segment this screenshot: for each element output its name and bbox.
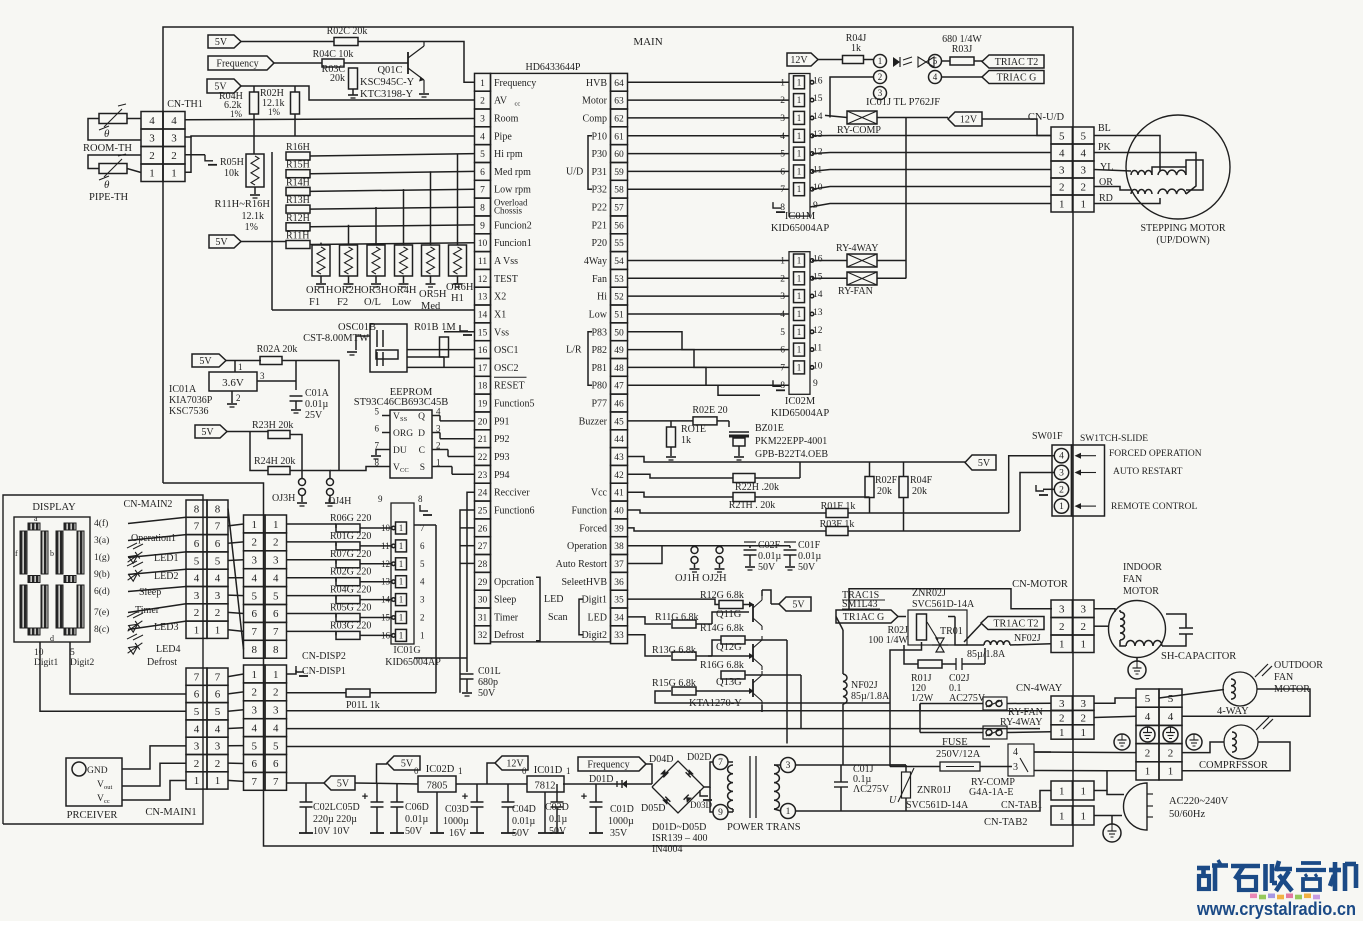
svg-text:OR2H: OR2H xyxy=(334,285,362,296)
svg-text:11: 11 xyxy=(478,257,487,267)
svg-text:2: 2 xyxy=(1080,621,1086,633)
node R03F label xyxy=(820,519,855,530)
svg-text:4: 4 xyxy=(1059,452,1064,462)
svg-text:8: 8 xyxy=(194,503,200,515)
svg-text:3: 3 xyxy=(251,555,257,567)
node R05H label xyxy=(220,157,244,179)
node MCU right pin labels xyxy=(556,78,608,641)
svg-text:KID65004AP: KID65004AP xyxy=(771,223,829,234)
svg-text:2: 2 xyxy=(215,607,221,619)
svg-text:6: 6 xyxy=(273,758,279,770)
svg-text:1: 1 xyxy=(797,273,802,283)
motor compressor xyxy=(1224,717,1273,759)
svg-text:3: 3 xyxy=(149,133,155,145)
node terminal 7 xyxy=(704,755,728,788)
wire RY4WAY common xyxy=(877,260,906,262)
resistor R23H xyxy=(268,431,290,439)
svg-text:5: 5 xyxy=(1168,693,1174,705)
svg-text:a: a xyxy=(34,514,38,523)
wire PK to motor xyxy=(1094,153,1196,195)
svg-text:5V: 5V xyxy=(201,427,214,438)
svg-text:7(e): 7(e) xyxy=(94,607,109,618)
node CN-MAIN2 label xyxy=(124,499,173,510)
wire R02H to Pipe row xyxy=(294,114,296,136)
svg-text:3: 3 xyxy=(1059,469,1064,479)
svg-text:5: 5 xyxy=(251,740,257,752)
node Digit1 label xyxy=(34,648,59,668)
node AC220 label xyxy=(1169,796,1229,820)
svg-text:GPB-B22T4.OEB: GPB-B22T4.OEB xyxy=(755,449,828,460)
svg-text:PK: PK xyxy=(1098,142,1112,153)
svg-text:TR1AC T2: TR1AC T2 xyxy=(993,619,1038,630)
node R04H label xyxy=(219,91,243,119)
svg-text:0.01µ: 0.01µ xyxy=(758,551,782,562)
node FUSE label xyxy=(936,737,981,760)
svg-text:3: 3 xyxy=(251,705,257,717)
svg-text:5V: 5V xyxy=(337,779,350,790)
node IC01G label xyxy=(385,645,441,668)
ground below Q01C emitter xyxy=(419,94,429,97)
wire disp2 rows to resistors xyxy=(287,524,392,635)
wire long row2 xyxy=(1034,751,1136,754)
wire R23H right xyxy=(290,435,302,480)
svg-text:X2: X2 xyxy=(494,292,506,303)
svg-text:R07G 220: R07G 220 xyxy=(330,549,371,560)
svg-text:R02G 220: R02G 220 xyxy=(330,567,371,578)
svg-text:14: 14 xyxy=(813,290,823,300)
svg-text:1: 1 xyxy=(215,775,221,787)
node C01J label xyxy=(853,764,890,795)
node terminal 3 xyxy=(781,758,796,773)
wire ry-fan row xyxy=(920,702,1051,704)
svg-text:16V: 16V xyxy=(449,828,467,839)
node R02H label xyxy=(260,88,285,117)
svg-text:6: 6 xyxy=(194,689,200,701)
node INDOOR FAN MOTOR label xyxy=(1123,562,1162,597)
svg-text:1: 1 xyxy=(273,669,279,681)
svg-text:4: 4 xyxy=(1145,711,1151,723)
wire snubber xyxy=(904,645,985,664)
svg-text:TR1AC G: TR1AC G xyxy=(843,612,884,623)
svg-text:22: 22 xyxy=(478,453,488,463)
svg-text:D: D xyxy=(418,429,425,439)
svg-text:3: 3 xyxy=(1080,164,1086,176)
svg-text:7: 7 xyxy=(480,186,485,196)
svg-text:C02D: C02D xyxy=(545,802,569,813)
svg-text:AV: AV xyxy=(494,96,508,107)
svg-text:2: 2 xyxy=(273,687,279,699)
svg-text:ZNR02J: ZNR02J xyxy=(912,588,946,599)
svg-text:35: 35 xyxy=(614,596,624,606)
varistor ZNR02J xyxy=(908,610,967,645)
node R01F label xyxy=(821,501,856,512)
wire RY-4WAY in xyxy=(812,260,847,262)
svg-text:Operation: Operation xyxy=(567,541,607,552)
regulator IC01D 7812 xyxy=(527,776,564,833)
svg-text:IN4004: IN4004 xyxy=(652,844,683,855)
svg-text:3: 3 xyxy=(1080,698,1086,710)
svg-text:8: 8 xyxy=(418,494,423,504)
svg-text:D04D: D04D xyxy=(649,754,673,765)
node R01E label xyxy=(681,424,706,446)
svg-text:41: 41 xyxy=(614,489,624,499)
svg-text:2: 2 xyxy=(1168,748,1174,760)
svg-text:56: 56 xyxy=(614,221,624,231)
svg-text:1: 1 xyxy=(780,78,785,88)
svg-text:SS: SS xyxy=(400,416,408,423)
resistor R01F xyxy=(826,509,848,518)
resistor OR1H-OR6H pullups xyxy=(312,154,467,288)
svg-text:OJ4H: OJ4H xyxy=(328,496,351,507)
power tag 5V F xyxy=(965,455,996,470)
connector CN-DISP1 xyxy=(244,665,287,790)
node IC01D label xyxy=(522,765,571,776)
capacitor SH-CAPACITOR xyxy=(1162,614,1193,646)
svg-text:Digit1: Digit1 xyxy=(34,658,59,668)
wire ladder left bus xyxy=(272,152,475,310)
svg-text:ROOM-TH: ROOM-TH xyxy=(83,143,132,154)
fuse FUSE xyxy=(934,762,1012,771)
svg-text:14: 14 xyxy=(813,112,823,122)
svg-text:4: 4 xyxy=(171,115,177,127)
svg-text:D02D: D02D xyxy=(687,752,711,763)
svg-text:3: 3 xyxy=(1059,604,1065,616)
motor stepping motor xyxy=(1126,115,1230,219)
svg-text:R13G 6.8k: R13G 6.8k xyxy=(652,645,696,656)
svg-text:Pipe: Pipe xyxy=(494,131,512,142)
wire pin27 stub xyxy=(460,545,475,547)
svg-text:26: 26 xyxy=(478,524,488,534)
node Digit2 label xyxy=(70,648,95,668)
svg-text:0: 0 xyxy=(522,766,527,776)
svg-text:4: 4 xyxy=(251,723,257,735)
svg-text:5V: 5V xyxy=(978,458,991,469)
node R02J label xyxy=(868,625,908,646)
varistor ZNR01J xyxy=(898,765,914,811)
svg-text:4: 4 xyxy=(933,72,938,82)
svg-text:CN-TAB1: CN-TAB1 xyxy=(1001,800,1042,811)
svg-text:6: 6 xyxy=(215,538,221,550)
svg-text:OR5H: OR5H xyxy=(419,289,447,300)
svg-text:S: S xyxy=(420,463,425,473)
connector CN-TAB1 xyxy=(1051,781,1094,800)
svg-text:1: 1 xyxy=(399,541,404,551)
node CN-U/D label xyxy=(1028,112,1065,123)
svg-text:47: 47 xyxy=(614,382,624,392)
node ROOM-TH label xyxy=(83,143,132,154)
wire disp1 row5 bus xyxy=(287,746,991,748)
svg-text:OR1H: OR1H xyxy=(306,285,334,296)
svg-text:32: 32 xyxy=(478,631,488,641)
connector CN-4WAY xyxy=(1051,696,1094,739)
svg-text:5: 5 xyxy=(375,407,380,417)
svg-text:d: d xyxy=(50,634,54,643)
wire MCU to IC01M in1-7 xyxy=(628,82,790,189)
wire R02F xyxy=(869,462,871,513)
svg-text:R02F: R02F xyxy=(875,475,898,486)
svg-text:IC01A: IC01A xyxy=(169,384,197,395)
svg-text:7: 7 xyxy=(718,758,723,768)
svg-text:2: 2 xyxy=(420,613,425,623)
svg-text:85µ/1.8A: 85µ/1.8A xyxy=(967,649,1006,660)
svg-text:1: 1 xyxy=(399,577,404,587)
svg-text:37: 37 xyxy=(614,560,624,570)
svg-text:RD: RD xyxy=(1099,193,1113,204)
wire display rows to CN-MAIN2 xyxy=(128,517,186,629)
svg-text:RO1E: RO1E xyxy=(681,424,706,435)
svg-text:50V: 50V xyxy=(512,828,530,839)
svg-text:40: 40 xyxy=(614,507,624,517)
svg-text:P20: P20 xyxy=(591,238,607,249)
wire pin35 digit1 xyxy=(628,599,720,604)
svg-text:6: 6 xyxy=(375,424,380,434)
svg-text:Function6: Function6 xyxy=(494,506,535,517)
svg-text:4: 4 xyxy=(1080,147,1086,159)
wire pin42 R22H xyxy=(628,462,801,478)
svg-text:R05G 220: R05G 220 xyxy=(330,603,371,614)
wire outdoor motor loop xyxy=(1159,689,1310,716)
node IC01M label xyxy=(771,211,829,234)
wire ry rows left xyxy=(919,704,921,733)
node IC01J label xyxy=(866,97,940,108)
svg-text:3: 3 xyxy=(260,371,265,381)
svg-text:44: 44 xyxy=(614,435,624,445)
svg-text:1: 1 xyxy=(797,362,802,372)
wire EEPROM Q to P91 xyxy=(440,416,475,421)
svg-text:6(d): 6(d) xyxy=(94,586,110,597)
svg-text:20: 20 xyxy=(478,417,488,427)
wire compressor loop xyxy=(1182,742,1290,771)
svg-text:V: V xyxy=(97,794,104,804)
svg-text:IC01D: IC01D xyxy=(534,765,563,776)
svg-text:1: 1 xyxy=(399,523,404,533)
svg-text:1: 1 xyxy=(797,149,802,159)
svg-text:5: 5 xyxy=(273,740,279,752)
svg-text:3: 3 xyxy=(194,741,200,753)
svg-text:13: 13 xyxy=(813,130,823,140)
svg-text:10: 10 xyxy=(813,361,823,371)
node CN-MOTOR label xyxy=(1012,579,1068,590)
svg-text:OSC1: OSC1 xyxy=(494,345,518,356)
wire OR to motor xyxy=(1094,187,1131,191)
wire opto out T2 xyxy=(942,60,951,62)
node R12G label xyxy=(700,590,744,601)
svg-text:CN-MOTOR: CN-MOTOR xyxy=(1012,579,1068,590)
svg-text:P91: P91 xyxy=(494,416,510,427)
capacitor C04D xyxy=(501,784,515,833)
svg-text:1: 1 xyxy=(780,257,785,267)
node 85u label xyxy=(967,649,1006,660)
svg-text:V: V xyxy=(97,780,104,790)
svg-text:Q12G: Q12G xyxy=(716,642,742,653)
node RY-FAN label xyxy=(838,286,873,297)
node OUTDOOR FAN MOTOR label xyxy=(1274,660,1323,695)
wire CN-TH1 row2 to ground xyxy=(185,154,205,156)
svg-text:4: 4 xyxy=(273,723,279,735)
svg-text:13: 13 xyxy=(478,293,488,303)
wire R04C to Q01C base xyxy=(344,62,408,64)
svg-text:7: 7 xyxy=(273,776,279,788)
svg-text:1: 1 xyxy=(797,256,802,266)
power tag 12V relay xyxy=(948,112,982,126)
svg-text:20k: 20k xyxy=(877,486,892,497)
svg-text:1000µ: 1000µ xyxy=(443,816,469,827)
wire CN-MAIN2 to CN-DISP2 xyxy=(228,509,244,650)
node TRAC1S label xyxy=(842,590,885,610)
wire triac row xyxy=(898,617,1051,646)
wire R12G to Q11G xyxy=(743,602,754,608)
svg-text:5: 5 xyxy=(215,706,221,718)
svg-text:7: 7 xyxy=(215,521,221,533)
wire EEPROM D to P92 xyxy=(440,433,475,439)
wire digit2 to CN-MAIN1 xyxy=(70,642,186,694)
svg-text:4-WAY: 4-WAY xyxy=(1217,706,1249,717)
node diode list label xyxy=(652,822,708,855)
wire sw pin4 feed xyxy=(1009,456,1054,513)
svg-text:R04G 220: R04G 220 xyxy=(330,585,371,596)
node CN-4WAY label xyxy=(1016,683,1063,694)
svg-text:5: 5 xyxy=(780,150,785,160)
svg-text:R11G 6.8k: R11G 6.8k xyxy=(655,612,699,623)
earth connector cells xyxy=(1140,727,1178,742)
svg-text:53: 53 xyxy=(614,275,624,285)
wire main board outline xyxy=(163,27,1073,846)
node C02F label xyxy=(758,540,782,573)
svg-text:15: 15 xyxy=(478,328,488,338)
svg-text:IC01G: IC01G xyxy=(393,645,420,656)
svg-text:RY-COMP: RY-COMP xyxy=(837,125,881,136)
wire R02C to Q01C collector xyxy=(358,42,475,83)
svg-text:1k: 1k xyxy=(681,435,691,446)
wire pin25 stub xyxy=(460,510,475,693)
svg-text:D01D~D05D: D01D~D05D xyxy=(652,822,706,833)
node R02C label xyxy=(327,26,368,37)
svg-text:Opcration: Opcration xyxy=(494,577,534,588)
svg-text:CN-TH1: CN-TH1 xyxy=(167,99,203,110)
svg-text:Q01C: Q01C xyxy=(377,65,402,76)
svg-text:CC: CC xyxy=(400,467,409,474)
svg-text:2: 2 xyxy=(1059,181,1065,193)
node TRIAC G tag ac xyxy=(836,610,898,623)
node R04F label xyxy=(910,475,933,497)
svg-text:HD6433644P: HD6433644P xyxy=(525,62,580,73)
svg-text:1: 1 xyxy=(194,775,200,787)
svg-text:3: 3 xyxy=(171,133,177,145)
node R22H label xyxy=(735,482,779,493)
svg-text:64: 64 xyxy=(614,79,624,89)
jumper RY-FAN contact xyxy=(983,697,1007,710)
wire motor row2 xyxy=(1094,625,1109,627)
svg-text:R01G 220: R01G 220 xyxy=(330,531,371,542)
svg-text:Chossis: Chossis xyxy=(494,206,523,216)
svg-text:Funcion2: Funcion2 xyxy=(494,220,532,231)
svg-text:STEPPING MOTOR: STEPPING MOTOR xyxy=(1140,223,1225,234)
svg-text:H1: H1 xyxy=(451,293,464,304)
node R11G label xyxy=(655,612,699,623)
svg-text:35V: 35V xyxy=(610,828,628,839)
svg-text:2: 2 xyxy=(194,758,200,770)
capacitor C05D xyxy=(362,784,384,833)
svg-text:LED: LED xyxy=(544,594,563,605)
svg-text:Recciver: Recciver xyxy=(494,488,530,499)
svg-text:13: 13 xyxy=(813,308,823,318)
svg-text:IC02M: IC02M xyxy=(785,396,816,407)
svg-text:18: 18 xyxy=(478,382,488,392)
svg-text:O/L: O/L xyxy=(364,297,381,308)
svg-text:HVB: HVB xyxy=(586,78,607,89)
svg-text:cc: cc xyxy=(515,101,521,108)
svg-text:MOTOR: MOTOR xyxy=(1123,586,1159,597)
svg-text:cc: cc xyxy=(104,798,110,805)
svg-text:Motor: Motor xyxy=(582,96,608,107)
node display pin designators xyxy=(94,518,110,635)
node C01L label xyxy=(478,666,501,699)
wire R04H top xyxy=(253,86,255,92)
svg-text:4: 4 xyxy=(780,310,785,320)
svg-text:6: 6 xyxy=(251,608,257,620)
wire R24H left xyxy=(250,432,268,471)
svg-text:ISR139 – 400: ISR139 – 400 xyxy=(652,833,708,844)
capacitor C01D xyxy=(581,784,603,833)
node R16G label xyxy=(700,660,744,671)
op-amp U3 seven segment display xyxy=(14,517,90,642)
ground EEPROM DU xyxy=(371,450,382,460)
svg-text:15: 15 xyxy=(813,94,823,104)
svg-text:2: 2 xyxy=(251,687,257,699)
svg-text:3.6V: 3.6V xyxy=(222,377,244,389)
svg-text:7: 7 xyxy=(251,776,257,788)
svg-text:Fan: Fan xyxy=(592,274,607,285)
wire 12V to R04J xyxy=(818,59,842,61)
buzzer BZ01E xyxy=(729,432,749,460)
svg-text:Function: Function xyxy=(571,506,607,517)
svg-text:46: 46 xyxy=(614,400,624,410)
jumper OJ1H xyxy=(690,546,700,572)
power tag 5V q xyxy=(779,597,811,611)
svg-text:5: 5 xyxy=(420,559,425,569)
node PRCEIVER label xyxy=(67,810,118,821)
wire PIPE-TH loop xyxy=(88,155,141,173)
capacitor C01F xyxy=(784,542,797,570)
svg-text:Digit2: Digit2 xyxy=(581,630,607,641)
svg-text:1: 1 xyxy=(1080,198,1086,210)
node TRIAC G tag xyxy=(982,71,1044,84)
node OR labels xyxy=(306,282,474,312)
oscillator OSC01B xyxy=(370,324,407,372)
svg-text:X1: X1 xyxy=(494,310,506,321)
wire freq tag down xyxy=(646,764,652,784)
wire main rail xyxy=(287,783,653,784)
svg-text:9(b): 9(b) xyxy=(94,569,110,580)
svg-text:FUSE: FUSE xyxy=(942,737,968,748)
capacitor C02J snubber xyxy=(942,658,985,670)
svg-text:2: 2 xyxy=(1059,712,1065,724)
svg-text:C01D: C01D xyxy=(610,804,634,815)
svg-text:NF02J: NF02J xyxy=(851,680,878,691)
svg-text:LED2: LED2 xyxy=(154,571,178,582)
ground below 3.6V xyxy=(227,404,237,407)
svg-text:1: 1 xyxy=(149,168,155,180)
node R15G label xyxy=(652,678,696,689)
wire q12 base xyxy=(708,653,754,659)
node led bracket left xyxy=(536,577,540,640)
wire pin41 R21H xyxy=(628,492,870,497)
svg-text:1: 1 xyxy=(251,669,257,681)
svg-text:OR4H: OR4H xyxy=(389,285,417,296)
svg-text:1: 1 xyxy=(797,77,802,87)
svg-text:COMPRFSSOR: COMPRFSSOR xyxy=(1199,760,1268,771)
svg-text:8: 8 xyxy=(480,204,485,214)
